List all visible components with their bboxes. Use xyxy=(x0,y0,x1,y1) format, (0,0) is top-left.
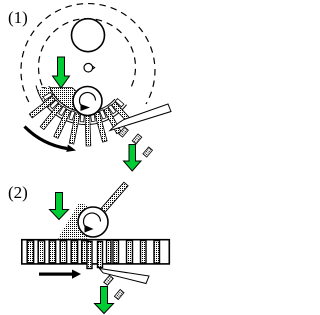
slot fingers xyxy=(43,92,124,122)
falling card piece 2 xyxy=(132,134,142,144)
axle xyxy=(84,63,93,72)
card band xyxy=(22,240,170,264)
card in slot 2 xyxy=(40,104,62,130)
card in slot 4 xyxy=(69,113,80,144)
green arrow out 1 xyxy=(124,145,142,172)
card in slot 7 xyxy=(104,108,121,134)
feed roller 2 xyxy=(78,207,108,237)
svg-text:(1): (1) xyxy=(8,8,28,27)
rotation arrow 1 xyxy=(80,93,96,107)
card stack wedge xyxy=(42,88,84,115)
falling card piece 1 xyxy=(119,127,129,137)
rotation arrow 2 xyxy=(84,213,101,228)
stack ramp xyxy=(58,203,88,239)
green arrow stack 1 xyxy=(53,57,70,88)
band inner arc xyxy=(49,86,115,112)
exit chute xyxy=(110,104,171,131)
svg-text:(2): (2) xyxy=(8,183,28,202)
pick strip xyxy=(97,182,128,217)
inner dashed circle xyxy=(38,19,135,89)
band cards right xyxy=(107,241,160,264)
band outer arc xyxy=(36,86,127,125)
top roller xyxy=(72,19,105,52)
deflector blade xyxy=(100,269,150,284)
ejected card b xyxy=(98,242,103,268)
card in slot 5 xyxy=(85,114,91,146)
falling piece a xyxy=(104,275,114,285)
falling card piece 3 xyxy=(143,147,153,157)
band cards left xyxy=(27,241,88,263)
rotation arrow drum xyxy=(25,127,68,149)
green arrow stack 2 xyxy=(50,193,69,220)
falling piece b xyxy=(114,289,124,299)
card in slot 6 xyxy=(95,112,108,142)
feed roller 1 xyxy=(73,87,102,116)
outer dashed circle xyxy=(21,4,155,104)
green arrow out 2 xyxy=(95,287,114,314)
card in slot 3 xyxy=(54,109,71,138)
card in slot 1 xyxy=(29,96,55,118)
ejected card a xyxy=(87,242,92,269)
feed direction arrow xyxy=(39,273,72,276)
card in slot 8 xyxy=(112,102,131,122)
